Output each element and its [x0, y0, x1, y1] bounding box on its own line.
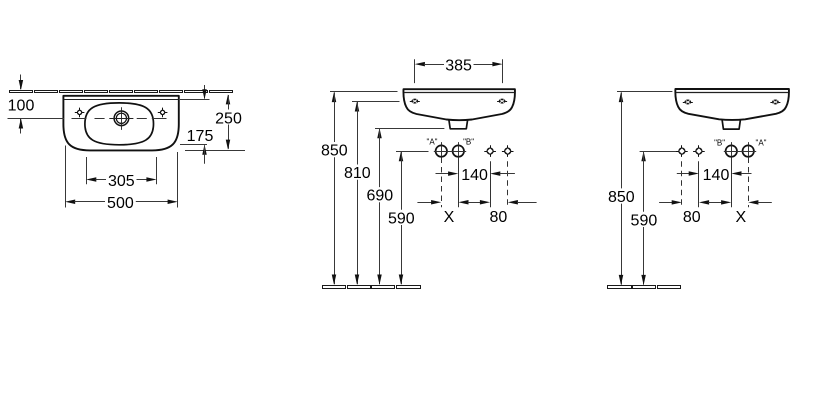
svg-text:X: X [444, 209, 455, 226]
svg-text:305: 305 [108, 173, 135, 190]
svg-text:"B": "B" [463, 138, 474, 147]
svg-text:"A": "A" [426, 138, 437, 147]
svg-text:850: 850 [321, 143, 348, 160]
svg-text:850: 850 [608, 189, 635, 206]
svg-text:690: 690 [366, 188, 393, 205]
svg-text:X: X [735, 209, 746, 226]
svg-text:590: 590 [631, 212, 658, 229]
svg-text:80: 80 [490, 209, 508, 226]
svg-text:140: 140 [461, 167, 488, 184]
svg-text:175: 175 [187, 128, 214, 145]
svg-text:500: 500 [107, 195, 134, 212]
svg-text:"B": "B" [714, 138, 725, 147]
svg-text:100: 100 [8, 97, 35, 114]
svg-text:385: 385 [445, 57, 472, 74]
svg-text:80: 80 [683, 209, 701, 226]
svg-text:590: 590 [388, 210, 415, 227]
svg-text:"A": "A" [755, 138, 766, 147]
svg-text:810: 810 [344, 165, 371, 182]
svg-text:140: 140 [703, 167, 730, 184]
